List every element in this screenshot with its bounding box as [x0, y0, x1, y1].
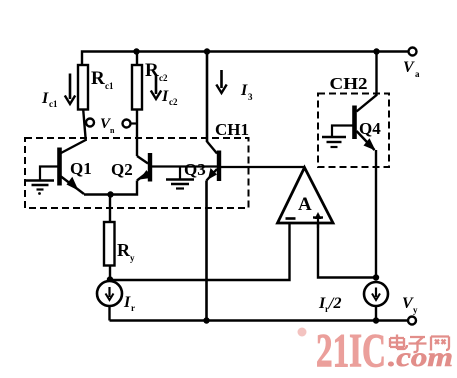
node common emitters junction — [107, 191, 113, 197]
label Rc1 — [91, 68, 114, 91]
label Q3 — [184, 160, 206, 179]
label I3 — [240, 82, 253, 102]
svg-text:Q1: Q1 — [70, 159, 92, 178]
svg-text:I: I — [161, 88, 169, 105]
terminal Vy (open circle) — [408, 317, 416, 325]
svg-text:c1: c1 — [49, 99, 58, 109]
wire Ry to Ir node — [109, 266, 111, 282]
wire Rc2 bottom to Q2 collector — [136, 110, 138, 157]
label Ir — [123, 294, 135, 313]
svg-text:I: I — [123, 294, 131, 311]
svg-text:CH2: CH2 — [330, 74, 368, 93]
label Vy — [402, 295, 418, 315]
terminal Vn right (open circle on Rc2 branch) — [123, 120, 138, 128]
label Ir/2 — [318, 295, 341, 314]
wire Q3 base to op-amp output — [221, 166, 305, 168]
label CH1 — [215, 120, 249, 139]
wire Q3 collector branch (rail down) — [206, 52, 209, 143]
op-amp A — [278, 168, 334, 229]
current arrow I3 — [216, 70, 226, 93]
svg-text:c2: c2 — [159, 73, 168, 83]
watermark 21IC — [316, 325, 386, 378]
transistor Q2 — [137, 153, 217, 182]
terminal Va (open circle) — [409, 48, 417, 56]
wire Q2 emitter to common node — [111, 181, 138, 195]
label Q1 — [70, 159, 92, 178]
wire Rc2 top to rail — [136, 52, 138, 66]
svg-text:Q2: Q2 — [111, 160, 133, 179]
svg-text:y: y — [413, 305, 418, 315]
watermark chinese 电子网 — [390, 335, 449, 353]
ground at Q1 base — [26, 181, 54, 195]
label Ic2 — [161, 88, 178, 107]
ground between Q2 and Q3 — [166, 167, 194, 189]
label Ic1 — [41, 90, 58, 109]
svg-text:.com: .com — [388, 342, 453, 372]
node Ir/2 top junction — [373, 274, 379, 280]
current arrow Ic2 — [151, 76, 161, 99]
current arrow Ic1 — [65, 74, 75, 105]
svg-text:/2: /2 — [328, 295, 341, 312]
resistor Ry — [104, 222, 115, 266]
transistor Q3 — [207, 142, 220, 182]
svg-text:21IC: 21IC — [316, 325, 386, 378]
dashed box CH1 (around Q1 Q2 Q3) — [25, 138, 249, 208]
watermark dot — [298, 328, 307, 337]
wire bottom rail — [110, 319, 409, 322]
resistor Rc1 — [78, 65, 88, 110]
transistor Q4 — [332, 52, 377, 151]
svg-text:r: r — [131, 303, 135, 313]
wire common node to Ry — [109, 195, 111, 223]
label CH2 — [330, 74, 368, 93]
resistor Rc2 — [132, 65, 142, 110]
svg-text:y: y — [130, 253, 135, 263]
svg-text:I: I — [41, 90, 49, 107]
wire Q4 emitter down to Ir/2 node — [375, 150, 377, 278]
transistor Q1 — [40, 140, 86, 194]
label Q2 — [111, 160, 133, 179]
wire op-amp inverting input to Ry node — [111, 223, 290, 280]
dashed box CH2 (around Q4) — [318, 94, 389, 168]
current source Ir — [97, 281, 122, 306]
label Rc2 — [145, 60, 168, 83]
svg-text:CH1: CH1 — [215, 120, 249, 139]
svg-text:A: A — [298, 194, 312, 215]
ground at Q4 base — [322, 137, 346, 147]
label Q4 — [359, 119, 381, 138]
svg-text:3: 3 — [248, 92, 253, 102]
wire top supply rail — [82, 52, 408, 67]
wire Ir/2 to bottom rail — [375, 306, 377, 321]
svg-text:I: I — [240, 82, 248, 99]
wire Q1 emitter to common node — [84, 193, 111, 195]
wire Q3 emitter down to bottom rail — [205, 181, 208, 321]
svg-text:Q3: Q3 — [184, 160, 206, 179]
node junction at Q3 branch — [204, 48, 210, 54]
svg-text:a: a — [415, 69, 420, 79]
watermark .com — [388, 342, 453, 372]
wire op-amp non-inverting input to Ir/2 node — [318, 223, 376, 278]
svg-text:R: R — [117, 240, 131, 260]
label Vn — [100, 116, 115, 135]
svg-text:R: R — [91, 68, 105, 89]
svg-text:n: n — [110, 126, 115, 135]
current source Ir/2 — [364, 282, 388, 306]
wire Ir to bottom rail — [108, 306, 110, 321]
node Ry / inverting input junction — [107, 276, 113, 282]
node bottom rail at Q3 branch — [203, 317, 209, 323]
label Ry — [117, 240, 135, 263]
node junction above Rc2 — [133, 48, 139, 54]
label Va — [403, 59, 420, 79]
svg-text:c2: c2 — [169, 97, 178, 107]
node bottom rail at Ir/2 branch — [373, 317, 379, 323]
svg-text:Q4: Q4 — [359, 119, 381, 138]
svg-text:c1: c1 — [105, 81, 114, 91]
node junction at Q4 branch — [373, 48, 379, 54]
wire Rc1 bottom to Vn node — [83, 110, 86, 142]
terminal Vn left (open circle on Rc1 branch) — [86, 119, 94, 127]
svg-text:V: V — [403, 59, 415, 76]
